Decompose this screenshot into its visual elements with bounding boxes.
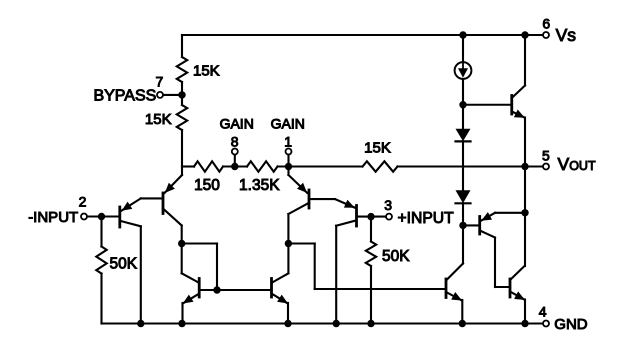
svg-text:VOUT: VOUT bbox=[558, 154, 596, 174]
svg-text:-INPUT: -INPUT bbox=[28, 209, 78, 226]
svg-text:+INPUT: +INPUT bbox=[398, 210, 455, 227]
svg-text:8: 8 bbox=[231, 133, 239, 149]
svg-text:2: 2 bbox=[79, 194, 87, 210]
svg-text:GND: GND bbox=[554, 316, 588, 333]
svg-text:7: 7 bbox=[156, 74, 164, 90]
svg-text:3: 3 bbox=[384, 197, 392, 213]
svg-text:150: 150 bbox=[194, 177, 220, 194]
svg-text:1: 1 bbox=[284, 133, 292, 149]
svg-text:1.35K: 1.35K bbox=[239, 177, 280, 194]
svg-text:Vs: Vs bbox=[556, 25, 577, 45]
svg-text:15K: 15K bbox=[193, 62, 220, 79]
svg-text:15K: 15K bbox=[364, 140, 391, 157]
svg-text:50K: 50K bbox=[110, 256, 138, 273]
svg-text:5: 5 bbox=[542, 147, 550, 163]
svg-text:50K: 50K bbox=[382, 248, 410, 265]
svg-text:GAIN: GAIN bbox=[271, 115, 305, 131]
svg-text:BYPASS: BYPASS bbox=[93, 87, 156, 104]
svg-text:15K: 15K bbox=[145, 111, 172, 128]
svg-text:4: 4 bbox=[539, 303, 547, 319]
svg-text:GAIN: GAIN bbox=[220, 115, 254, 131]
svg-text:6: 6 bbox=[542, 16, 550, 32]
